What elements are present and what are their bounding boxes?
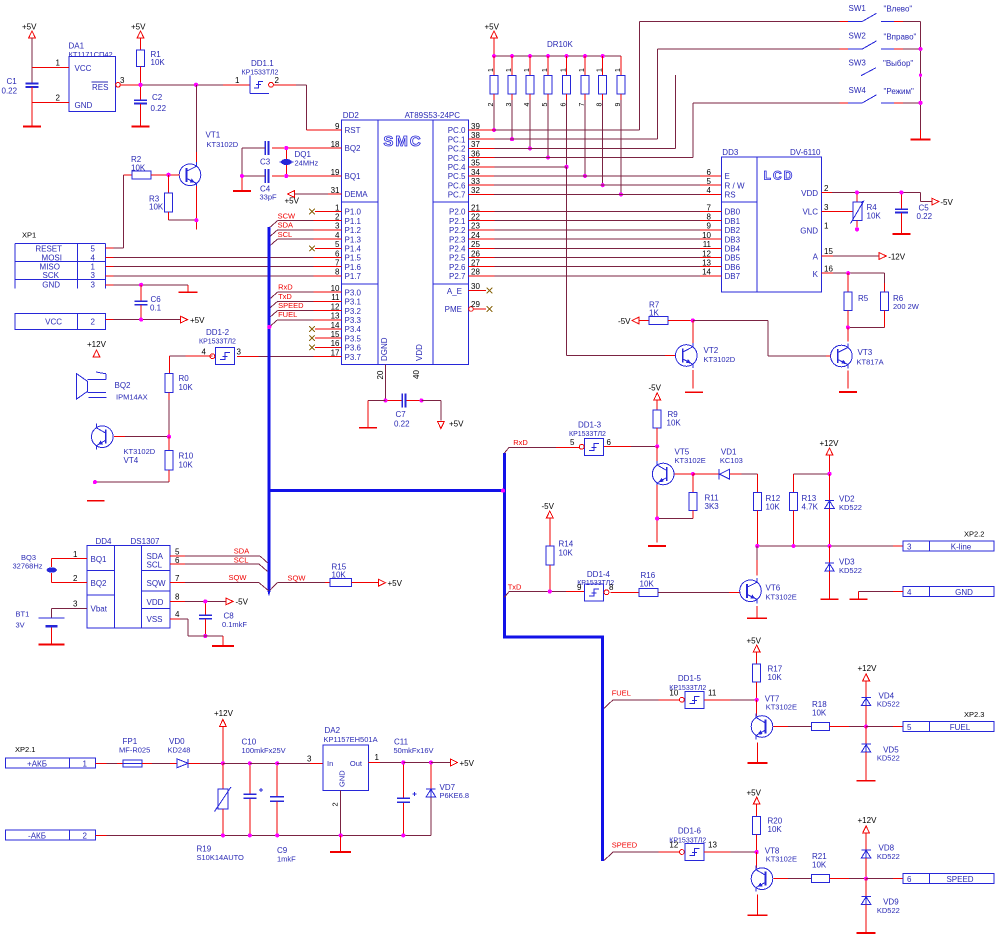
wire R11 to emitter bbox=[657, 518, 693, 520]
svg-text:4: 4 bbox=[202, 348, 207, 357]
svg-text:10: 10 bbox=[702, 231, 711, 240]
connector XP2.1 bbox=[15, 745, 35, 754]
wire PC.1 row bbox=[481, 138, 657, 140]
svg-text:11: 11 bbox=[331, 293, 340, 302]
resistor R14 bbox=[546, 540, 574, 592]
svg-text:2: 2 bbox=[73, 574, 78, 583]
svg-text:SCL: SCL bbox=[278, 230, 293, 239]
svg-text:1: 1 bbox=[83, 759, 88, 768]
svg-text:VLC: VLC bbox=[802, 208, 818, 217]
svg-text:DD1-6: DD1-6 bbox=[678, 826, 702, 835]
node dot VD7 top bbox=[429, 760, 433, 764]
svg-text:6: 6 bbox=[607, 438, 612, 447]
svg-text:P1.3: P1.3 bbox=[345, 235, 362, 244]
power +5V (MCU VDD) bbox=[438, 420, 465, 429]
svg-text:+5V: +5V bbox=[747, 636, 762, 645]
node dot DQ1 top bbox=[284, 146, 288, 150]
power +5V (R1) bbox=[131, 23, 146, 51]
svg-text:1: 1 bbox=[506, 68, 513, 72]
svg-text:2: 2 bbox=[488, 103, 495, 107]
svg-text:10K: 10K bbox=[812, 708, 827, 717]
svg-text:P2.0: P2.0 bbox=[449, 208, 466, 217]
resistor R5 bbox=[844, 273, 869, 327]
node dot R4 top bbox=[855, 190, 859, 194]
svg-text:2: 2 bbox=[56, 94, 61, 103]
ground (BT1) bbox=[39, 643, 65, 645]
svg-text:9: 9 bbox=[335, 122, 340, 131]
svg-text:1: 1 bbox=[73, 550, 78, 559]
switch SW4 "Rezhim" bbox=[839, 86, 920, 103]
connector XP2.3 FUEL bbox=[903, 722, 994, 733]
svg-text:13: 13 bbox=[702, 259, 711, 268]
svg-text:P2.1: P2.1 bbox=[449, 217, 466, 226]
svg-text:PME: PME bbox=[445, 305, 462, 314]
resistor R17 bbox=[753, 664, 783, 700]
wire gate in bbox=[704, 851, 757, 853]
chip DD2 right pins bbox=[448, 122, 481, 281]
wire PC.4 row bbox=[481, 166, 567, 168]
svg-text:DD1-3: DD1-3 bbox=[578, 421, 602, 430]
net K-line row bbox=[757, 545, 903, 547]
svg-text:-5V: -5V bbox=[236, 598, 249, 607]
resistor R12 bbox=[753, 474, 780, 546]
svg-text:PC.7: PC.7 bbox=[448, 191, 466, 200]
svg-text:10K: 10K bbox=[812, 861, 827, 870]
svg-text:1: 1 bbox=[488, 68, 495, 72]
ground (VD3) bbox=[821, 598, 839, 600]
resistor R13 bbox=[790, 474, 819, 546]
svg-text:28: 28 bbox=[471, 268, 480, 277]
svg-text:4: 4 bbox=[175, 610, 180, 619]
wire rail to C9 bbox=[250, 762, 277, 764]
resistor R11 bbox=[689, 474, 719, 519]
pin VLC bbox=[802, 203, 852, 217]
svg-text:XP2.3: XP2.3 bbox=[964, 710, 984, 719]
svg-text:A: A bbox=[813, 253, 819, 262]
node dot FUEL tap on bus bbox=[267, 325, 271, 329]
capacitor C7 bbox=[386, 393, 422, 428]
svg-text:26: 26 bbox=[471, 249, 480, 258]
svg-text:50mkFx16V: 50mkFx16V bbox=[394, 746, 434, 755]
node dot C7 right bbox=[419, 398, 423, 402]
svg-text:36: 36 bbox=[471, 149, 480, 158]
wire PC.6 row to LCD R/W bbox=[481, 184, 722, 186]
inverter DD1.1 KR1533TL2 bbox=[235, 59, 279, 94]
svg-text:22: 22 bbox=[471, 213, 480, 222]
switch SW2 "Vpravo" bbox=[839, 32, 920, 49]
power +5V (DEMA) bbox=[285, 191, 328, 206]
wire PC.4 to VT2 base bbox=[567, 167, 676, 356]
resistor R7 bbox=[639, 301, 693, 325]
svg-text:16: 16 bbox=[331, 339, 340, 348]
svg-text:18: 18 bbox=[331, 140, 340, 149]
chip DD3 data pins bbox=[700, 203, 741, 281]
svg-text:BQ1: BQ1 bbox=[345, 172, 362, 181]
svg-text:VDD: VDD bbox=[415, 344, 424, 361]
svg-text:2: 2 bbox=[275, 76, 280, 85]
connector XP1 VCC cell bbox=[15, 314, 105, 330]
svg-text:КР1533ТЛ2: КР1533ТЛ2 bbox=[242, 70, 279, 77]
svg-text:P2.4: P2.4 bbox=[449, 245, 466, 254]
resistor R21 bbox=[811, 852, 866, 883]
ground (XP1) bbox=[179, 291, 198, 293]
svg-text:23: 23 bbox=[471, 222, 480, 231]
wire DD1.1 out to RST bbox=[273, 85, 327, 130]
svg-text:1: 1 bbox=[524, 68, 531, 72]
chip DD2 left pins bbox=[328, 122, 368, 362]
svg-text:In: In bbox=[327, 759, 333, 768]
wire VT2 collector to VT3 base bbox=[693, 321, 831, 357]
bus horizontal 1 bbox=[268, 489, 505, 492]
svg-text:KT3102E: KT3102E bbox=[766, 855, 797, 864]
switch SW3 "Vybor" bbox=[849, 59, 914, 76]
svg-text:+5V: +5V bbox=[285, 196, 300, 205]
wire PC.2 row bbox=[481, 147, 676, 149]
svg-text:15: 15 bbox=[824, 247, 833, 256]
wire VT8 base bbox=[773, 878, 811, 880]
svg-text:DGND: DGND bbox=[380, 337, 389, 361]
net RxD tap (bus) bbox=[504, 438, 528, 453]
node dot C4 left bbox=[240, 174, 244, 178]
svg-text:1: 1 bbox=[56, 59, 61, 68]
svg-text:DR10K: DR10K bbox=[547, 40, 573, 49]
net FUEL tap bbox=[270, 310, 342, 326]
svg-text:KT3102E: KT3102E bbox=[675, 456, 706, 465]
wire FUEL to gate bbox=[613, 699, 679, 701]
wire to FUEL bbox=[866, 726, 903, 728]
svg-text:DB5: DB5 bbox=[725, 254, 741, 263]
wire -AKB rail bbox=[95, 834, 431, 836]
svg-text:5: 5 bbox=[542, 103, 549, 107]
wire VT5 emitter bbox=[656, 485, 658, 543]
svg-text:37: 37 bbox=[471, 140, 480, 149]
node dot +12V/VD2 bbox=[827, 472, 831, 476]
svg-text:P1.0: P1.0 bbox=[345, 208, 362, 217]
svg-text:4: 4 bbox=[907, 588, 912, 597]
svg-text:DD3: DD3 bbox=[722, 148, 739, 157]
svg-text:P3.3: P3.3 bbox=[345, 316, 362, 325]
svg-text:+12V: +12V bbox=[214, 709, 234, 718]
svg-text:DA2: DA2 bbox=[325, 726, 341, 735]
svg-text:3: 3 bbox=[335, 222, 340, 231]
ground (RTC) bbox=[212, 645, 234, 647]
varistor R19 S10K14AUTO bbox=[197, 763, 245, 862]
svg-text:7: 7 bbox=[579, 103, 586, 107]
nc mark P3.6 bbox=[309, 345, 328, 351]
connector XP2.2 bbox=[903, 530, 994, 552]
wire RESET riser bbox=[123, 175, 125, 248]
transistor VT2 KT3102D bbox=[676, 343, 736, 368]
svg-text:KD248: KD248 bbox=[168, 746, 191, 755]
wire VT5 base bbox=[675, 473, 693, 475]
svg-text:P2.6: P2.6 bbox=[449, 263, 466, 272]
svg-text:XP2.2: XP2.2 bbox=[964, 530, 984, 539]
svg-text:3: 3 bbox=[91, 271, 96, 280]
capacitor C10 100mkFx25V bbox=[242, 738, 286, 836]
svg-text:+АКБ: +АКБ bbox=[27, 759, 47, 768]
svg-text:LCD: LCD bbox=[764, 169, 795, 183]
wire RxD to DD1.3 bbox=[509, 446, 579, 448]
svg-text:P2.2: P2.2 bbox=[449, 226, 466, 235]
capacitor C6 bbox=[135, 285, 162, 320]
svg-text:9: 9 bbox=[707, 222, 712, 231]
svg-text:KD522: KD522 bbox=[877, 700, 900, 709]
wire DD1.3 in from VT5 bbox=[604, 445, 657, 447]
svg-text:10K: 10K bbox=[768, 673, 783, 682]
diode VD2 KD522 bbox=[825, 474, 862, 546]
ground (VT7) bbox=[748, 762, 768, 764]
node dot R2/R3 bbox=[166, 173, 170, 177]
svg-text:31: 31 bbox=[331, 186, 340, 195]
svg-text:DD1-2: DD1-2 bbox=[206, 328, 230, 337]
ground (C5) bbox=[892, 233, 910, 235]
svg-text:FUEL: FUEL bbox=[278, 310, 297, 319]
svg-text:0.22: 0.22 bbox=[2, 87, 18, 96]
svg-text:GND: GND bbox=[955, 588, 973, 597]
svg-text:+12V: +12V bbox=[858, 816, 878, 825]
capacitor C9 1mkF bbox=[270, 763, 296, 863]
svg-text:2: 2 bbox=[331, 802, 340, 806]
svg-text:SDA: SDA bbox=[234, 547, 249, 556]
svg-text:K: K bbox=[813, 270, 819, 279]
svg-text:1: 1 bbox=[824, 222, 829, 231]
svg-text:KD522: KD522 bbox=[877, 906, 900, 915]
svg-text:SW3: SW3 bbox=[849, 59, 867, 68]
diode VD7 P6KE6.8 bbox=[426, 763, 469, 836]
svg-text:+5V: +5V bbox=[388, 579, 403, 588]
power -5V (RTC) bbox=[226, 598, 249, 607]
wire DA2 gnd stub bbox=[340, 835, 342, 851]
svg-text:SMC: SMC bbox=[383, 133, 422, 150]
svg-text:5: 5 bbox=[335, 240, 340, 249]
node dot R4 bottom bbox=[855, 227, 859, 231]
svg-text:-5V: -5V bbox=[618, 317, 631, 326]
svg-text:-12V: -12V bbox=[888, 253, 906, 262]
power +5V (R15) bbox=[379, 579, 403, 588]
connector XP1 bbox=[15, 231, 105, 290]
svg-text:2: 2 bbox=[83, 831, 88, 840]
svg-text:3V: 3V bbox=[16, 621, 25, 630]
svg-text:32: 32 bbox=[471, 186, 480, 195]
power +12V (K-line) bbox=[820, 439, 840, 474]
svg-text:10: 10 bbox=[331, 284, 340, 293]
svg-text:17: 17 bbox=[331, 348, 340, 357]
svg-text:25: 25 bbox=[471, 240, 480, 249]
ground (VT6) bbox=[747, 617, 767, 619]
node dot SW2 common bbox=[918, 47, 922, 51]
svg-text:"Влево": "Влево" bbox=[884, 5, 913, 14]
node dot VCC/C6 bbox=[139, 318, 143, 322]
wire VT2 emitter bbox=[692, 370, 694, 388]
pin VDD bbox=[801, 184, 920, 198]
wire switch common bbox=[920, 21, 922, 139]
svg-text:8: 8 bbox=[335, 268, 340, 277]
svg-text:XP2.1: XP2.1 bbox=[15, 745, 35, 754]
node dot R14/TxD bbox=[548, 589, 552, 593]
svg-text:+12V: +12V bbox=[87, 340, 107, 349]
transistor VT4 KT3102D bbox=[92, 424, 156, 465]
resistor R6 bbox=[881, 273, 920, 327]
node dot VT8 collector bbox=[755, 850, 759, 854]
wire MISO bbox=[105, 266, 341, 268]
svg-text:KT3102D: KT3102D bbox=[124, 447, 156, 456]
power -5V (R7) bbox=[618, 317, 639, 326]
svg-text:5: 5 bbox=[91, 245, 96, 254]
svg-text:1K: 1K bbox=[649, 309, 659, 318]
svg-text:DEMA: DEMA bbox=[345, 190, 369, 199]
node dot GND/C6 bbox=[139, 283, 143, 287]
wire VCC to +5V bbox=[105, 319, 180, 321]
svg-text:DD1.1: DD1.1 bbox=[251, 59, 274, 68]
svg-text:35: 35 bbox=[471, 159, 480, 168]
ground (VT2) bbox=[685, 391, 703, 393]
power -5V (R9) bbox=[649, 384, 662, 411]
capacitor C8 bbox=[199, 601, 248, 636]
diode VD8 KD522 bbox=[861, 844, 899, 879]
nc mark P1.0 bbox=[309, 209, 328, 215]
svg-text:TxD: TxD bbox=[278, 292, 292, 301]
svg-text:КТ1171СП42: КТ1171СП42 bbox=[69, 50, 113, 59]
node dot pin20/C7 bbox=[383, 398, 387, 402]
svg-text:SQW: SQW bbox=[229, 573, 248, 582]
wire crystal left leg bbox=[241, 148, 243, 191]
node dot R13/K-line bbox=[792, 544, 796, 548]
svg-text:33pF: 33pF bbox=[260, 193, 278, 202]
svg-text:10K: 10K bbox=[766, 503, 781, 512]
svg-text:RES: RES bbox=[92, 83, 108, 92]
svg-text:DB1: DB1 bbox=[725, 217, 741, 226]
ground (VT8) bbox=[748, 914, 768, 916]
wire VT6 emitter bbox=[756, 606, 758, 618]
svg-text:C2: C2 bbox=[152, 93, 163, 102]
svg-text:DB4: DB4 bbox=[725, 245, 741, 254]
power +5V (DR10K) bbox=[485, 23, 500, 57]
svg-text:КР1533ТЛ2: КР1533ТЛ2 bbox=[569, 431, 606, 438]
resistor R3 bbox=[149, 175, 173, 220]
svg-text:DD2: DD2 bbox=[343, 111, 360, 120]
wire VT4 base bbox=[114, 436, 169, 438]
svg-text:10K: 10K bbox=[768, 825, 783, 834]
transistor VT7 KT3102E bbox=[751, 694, 797, 739]
speaker BQ2 IPM14AX bbox=[77, 372, 148, 402]
svg-text:BT1: BT1 bbox=[16, 610, 30, 619]
resistor R10 bbox=[165, 437, 194, 482]
svg-text:7: 7 bbox=[707, 203, 712, 212]
svg-text:12: 12 bbox=[702, 249, 711, 258]
wire XP1 GND bbox=[105, 285, 188, 292]
svg-text:DB2: DB2 bbox=[725, 226, 741, 235]
svg-text:5: 5 bbox=[570, 438, 575, 447]
svg-text:8: 8 bbox=[707, 213, 712, 222]
svg-text:SDA: SDA bbox=[278, 221, 293, 230]
node dot R1/C2 bbox=[138, 83, 142, 87]
svg-text:DB0: DB0 bbox=[725, 208, 741, 217]
svg-text:SPEED: SPEED bbox=[946, 875, 973, 884]
pin 20 DGND bbox=[376, 365, 386, 401]
wire R5/R6 bottom bbox=[848, 326, 885, 328]
svg-text:VT3: VT3 bbox=[858, 348, 873, 357]
ground (C1) bbox=[23, 126, 41, 128]
svg-text:1: 1 bbox=[542, 68, 549, 72]
inverter DD1-5 KR1533TL2 bbox=[669, 674, 717, 708]
inverter DD1.4 KR1533TL2 bbox=[577, 570, 614, 601]
net RxD tap bbox=[270, 283, 342, 299]
pin VDD RTC bbox=[170, 593, 225, 602]
net SQW from RTC bbox=[170, 573, 268, 591]
svg-text:BQ2: BQ2 bbox=[115, 381, 132, 390]
wire VT1 collector bbox=[195, 85, 197, 164]
wire VT8 emitter bbox=[757, 895, 759, 915]
capacitor C11 50mkFx16V bbox=[394, 738, 434, 836]
svg-text:P1.1: P1.1 bbox=[345, 217, 362, 226]
svg-text:RxD: RxD bbox=[278, 283, 293, 292]
svg-text:10K: 10K bbox=[640, 580, 655, 589]
svg-text:3: 3 bbox=[907, 543, 912, 552]
svg-text:SCL: SCL bbox=[147, 561, 163, 570]
chip DD3 DV-6110 box bbox=[722, 148, 822, 292]
svg-text:P3.1: P3.1 bbox=[345, 298, 362, 307]
svg-text:VDD: VDD bbox=[801, 189, 818, 198]
svg-text:P2.7: P2.7 bbox=[449, 272, 466, 281]
svg-text:+5V: +5V bbox=[460, 759, 475, 768]
svg-text:3: 3 bbox=[237, 348, 242, 357]
svg-text:27: 27 bbox=[471, 259, 480, 268]
node dot C9 top bbox=[275, 761, 279, 765]
power +12V (VD4) bbox=[858, 664, 878, 698]
diode VD4 KD522 bbox=[861, 692, 899, 727]
wire VT5 collector bbox=[656, 446, 658, 463]
wire DA1 pin2 bbox=[32, 94, 69, 103]
svg-text:VCC: VCC bbox=[75, 64, 92, 73]
wire PC.0 row bbox=[481, 129, 639, 131]
svg-text:DD1-5: DD1-5 bbox=[678, 674, 702, 683]
svg-text:KT3102D: KT3102D bbox=[704, 355, 736, 364]
pin GND lcd bbox=[800, 222, 829, 236]
pin 40 label bbox=[412, 370, 421, 379]
wire VT3 emitter bbox=[847, 371, 849, 389]
svg-text:SW2: SW2 bbox=[849, 32, 867, 41]
connector XP2.3 SPEED bbox=[903, 874, 994, 885]
svg-text:KD522: KD522 bbox=[839, 503, 862, 512]
svg-text:MF-R025: MF-R025 bbox=[119, 746, 150, 755]
svg-text:1: 1 bbox=[579, 68, 586, 72]
transistor VT6 KT3102E bbox=[740, 578, 797, 603]
mark red dash bbox=[87, 500, 105, 502]
wire XP2.2 GND bbox=[858, 592, 903, 599]
svg-text:P3.0: P3.0 bbox=[345, 288, 362, 297]
pin VSS RTC bbox=[170, 610, 223, 646]
svg-text:SW1: SW1 bbox=[849, 4, 867, 13]
svg-text:10K: 10K bbox=[179, 383, 194, 392]
svg-text:P1.2: P1.2 bbox=[345, 226, 362, 235]
svg-text:4: 4 bbox=[335, 231, 340, 240]
svg-text:24MHz: 24MHz bbox=[295, 158, 319, 167]
svg-text:"Вправо": "Вправо" bbox=[884, 33, 917, 42]
node dot -rail C9 bbox=[275, 833, 279, 837]
wire PC.5 row to LCD E bbox=[481, 175, 722, 177]
trimmer R4 bbox=[851, 192, 882, 229]
wire VT6 collector bbox=[756, 546, 758, 576]
bus horizontal 2 bbox=[504, 636, 604, 639]
svg-text:VT6: VT6 bbox=[766, 584, 781, 593]
svg-text:C3: C3 bbox=[260, 158, 271, 167]
svg-text:KT817A: KT817A bbox=[857, 358, 884, 367]
wire rail to DA2 bbox=[277, 755, 323, 764]
wire DR10K common rail bbox=[494, 55, 621, 57]
svg-text:R0: R0 bbox=[179, 374, 190, 383]
svg-text:S10K14AUTO: S10K14AUTO bbox=[197, 853, 245, 862]
svg-text:SQW: SQW bbox=[288, 574, 307, 583]
